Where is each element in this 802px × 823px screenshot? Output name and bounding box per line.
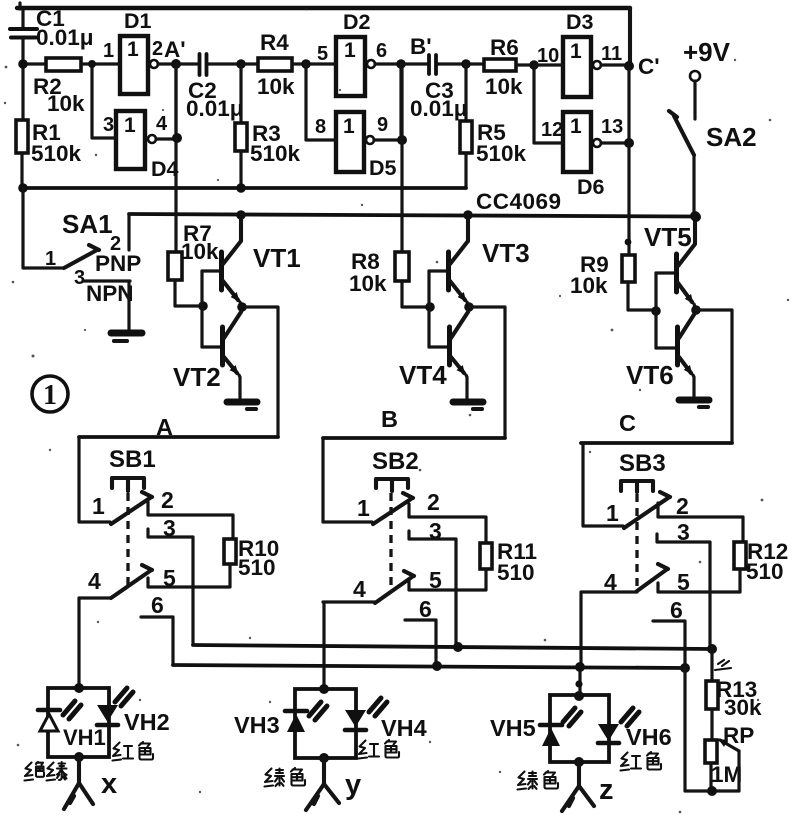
svg-text:R4: R4 (260, 30, 289, 55)
svg-text:4: 4 (88, 568, 101, 594)
svg-text:SB1: SB1 (109, 446, 156, 473)
svg-text:13: 13 (601, 116, 623, 138)
svg-text:D4: D4 (151, 157, 179, 181)
svg-text:10k: 10k (570, 273, 608, 298)
svg-text:2: 2 (161, 487, 174, 513)
svg-text:VH5: VH5 (490, 715, 536, 741)
svg-text:SB2: SB2 (372, 448, 419, 475)
svg-text:Aʹ: Aʹ (164, 37, 186, 62)
svg-text:0.01μ: 0.01μ (186, 96, 244, 121)
svg-text:D1: D1 (124, 9, 152, 33)
svg-text:PNP: PNP (95, 251, 141, 276)
svg-text:VT3: VT3 (482, 238, 530, 268)
svg-text:2: 2 (152, 38, 163, 60)
svg-text:9: 9 (377, 114, 388, 136)
svg-text:4: 4 (156, 113, 168, 135)
svg-text:VH6: VH6 (626, 724, 672, 750)
svg-text:D2: D2 (343, 10, 371, 34)
svg-text:10: 10 (537, 45, 559, 67)
svg-text:VH1: VH1 (63, 725, 106, 750)
svg-text:C: C (619, 410, 636, 436)
svg-text:D3: D3 (566, 10, 594, 34)
svg-text:6: 6 (419, 596, 432, 622)
svg-text:1: 1 (92, 493, 105, 519)
svg-text:0.01μ: 0.01μ (410, 96, 468, 121)
svg-text:SA1: SA1 (62, 209, 113, 239)
svg-text:Cʹ: Cʹ (638, 54, 660, 79)
svg-text:1: 1 (343, 115, 355, 138)
svg-text:VT2: VT2 (173, 362, 221, 392)
svg-text:y: y (345, 769, 361, 801)
svg-text:VT6: VT6 (626, 360, 674, 390)
svg-text:D6: D6 (577, 175, 605, 199)
svg-text:10k: 10k (181, 239, 219, 264)
svg-text:CC4069: CC4069 (476, 189, 562, 214)
svg-text:+9V: +9V (683, 37, 731, 67)
svg-text:30k: 30k (724, 695, 762, 720)
svg-text:510: 510 (238, 555, 276, 580)
svg-text:3: 3 (103, 114, 114, 136)
svg-text:3: 3 (74, 267, 85, 289)
svg-text:VT1: VT1 (253, 243, 301, 273)
svg-text:VH2: VH2 (124, 709, 170, 735)
svg-text:1: 1 (45, 248, 56, 270)
svg-text:2: 2 (676, 493, 689, 519)
svg-text:6: 6 (151, 592, 164, 618)
svg-text:SA2: SA2 (706, 122, 757, 152)
svg-text:0.01μ: 0.01μ (36, 25, 94, 50)
svg-text:VT5: VT5 (644, 222, 692, 252)
svg-text:510k: 510k (250, 141, 301, 166)
svg-text:B: B (381, 406, 398, 432)
svg-text:510: 510 (746, 559, 784, 584)
svg-text:510k: 510k (31, 141, 82, 166)
svg-text:11: 11 (601, 43, 622, 65)
svg-text:5: 5 (317, 43, 328, 65)
svg-text:VT4: VT4 (399, 360, 447, 390)
svg-text:NPN: NPN (86, 281, 134, 306)
svg-text:6: 6 (376, 40, 387, 62)
svg-text:D5: D5 (369, 156, 397, 180)
svg-text:z: z (599, 774, 614, 806)
svg-text:1: 1 (570, 40, 582, 63)
svg-text:8: 8 (315, 116, 326, 138)
svg-text:2: 2 (427, 489, 440, 515)
svg-text:6: 6 (670, 597, 683, 623)
svg-text:510: 510 (497, 560, 535, 585)
svg-text:10k: 10k (257, 74, 295, 99)
svg-text:1: 1 (344, 39, 356, 62)
svg-text:510k: 510k (476, 141, 527, 166)
svg-text:1: 1 (43, 380, 57, 411)
svg-text:1: 1 (357, 495, 370, 521)
svg-text:VH4: VH4 (381, 715, 427, 741)
svg-text:x: x (101, 768, 117, 800)
svg-text:1: 1 (124, 114, 136, 137)
svg-text:1: 1 (103, 40, 114, 62)
svg-text:4: 4 (353, 576, 366, 602)
svg-text:12: 12 (541, 119, 563, 141)
svg-text:10k: 10k (485, 74, 523, 99)
svg-text:VH3: VH3 (234, 712, 280, 738)
svg-text:1: 1 (570, 115, 582, 138)
svg-text:R6: R6 (490, 35, 519, 60)
svg-text:10k: 10k (349, 271, 387, 296)
svg-text:10k: 10k (47, 91, 85, 116)
svg-text:1: 1 (606, 500, 619, 526)
svg-text:1: 1 (127, 38, 139, 61)
svg-text:SB3: SB3 (619, 450, 666, 477)
